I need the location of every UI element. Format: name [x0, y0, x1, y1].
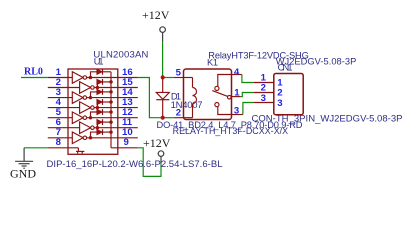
U1 internal GND chassis mark pin8 — [76, 148, 84, 154]
connector CN1 body — [274, 74, 303, 115]
U1 pin 15 — [118, 77, 138, 88]
wire junction to relay pin5 — [163, 77, 174, 79]
U1 pin 8 — [48, 137, 79, 148]
relay K1 pin 2 — [174, 108, 184, 119]
power port +12V bottom — [143, 136, 171, 163]
ground symbol GND — [10, 148, 36, 181]
U1 pin 13 — [118, 97, 138, 108]
wire K1 pin4 to CN1 pin1 — [242, 75, 254, 83]
svg-text:DIP-16_16P-L20.2-W6.6-P2.54-LS: DIP-16_16P-L20.2-W6.6-P2.54-LS7.6-BL — [47, 159, 223, 170]
CN1 pin 3 — [254, 93, 283, 109]
svg-text:+12V: +12V — [143, 136, 171, 150]
svg-text:2: 2 — [176, 108, 181, 119]
U1 internal driver channel 1 — [72, 69, 118, 83]
U1 pin 4 — [48, 97, 80, 108]
wire U1 pin9 to +12V bottom — [138, 148, 161, 177]
svg-text:CN1: CN1 — [278, 63, 293, 73]
U1 pin 5 — [48, 107, 73, 118]
svg-text:CON-TH_3PIN_WJ2EDGV-5.08-3P: CON-TH_3PIN_WJ2EDGV-5.08-3P — [252, 114, 403, 125]
CN1 pin 1 — [254, 73, 284, 89]
svg-text:RL0: RL0 — [24, 67, 43, 78]
svg-text:3: 3 — [261, 93, 266, 104]
relay K1 body — [184, 69, 232, 120]
svg-text:1: 1 — [234, 87, 240, 98]
U1 pin 12 — [118, 107, 138, 118]
U1 pin 2 — [48, 77, 80, 88]
U1 pin 16 — [118, 67, 138, 78]
svg-text:+12V: +12V — [142, 8, 170, 22]
relay K1 pin 1 — [232, 87, 241, 98]
svg-text:3: 3 — [277, 98, 282, 109]
svg-text:3: 3 — [234, 106, 239, 117]
wire U1 pin16 to relay coil / D1 — [138, 78, 163, 118]
U1 pin 9 — [111, 137, 138, 148]
U1 pin 14 — [118, 87, 138, 98]
U1 pin 3 — [48, 87, 73, 98]
wire +12V down to junction — [162, 41, 164, 78]
U1 internal driver channel 2 — [80, 79, 118, 93]
wire net RL0 to U1 pin1 — [21, 77, 48, 79]
junction node D1/K1.2 — [161, 116, 165, 120]
relay K1 contact — [212, 75, 231, 115]
svg-text:8: 8 — [56, 137, 62, 148]
svg-text:K1: K1 — [207, 57, 218, 67]
U1 internal driver channel 6 — [80, 119, 118, 133]
relay K1 pin 4 — [232, 67, 242, 78]
wire K1 pin3 to CN1 pin3 — [243, 103, 254, 115]
CN1 pin 2 — [254, 83, 283, 99]
relay K1 coil — [184, 78, 197, 118]
U1 internal driver channel 3 — [72, 89, 118, 103]
U1 pin 10 — [118, 127, 138, 138]
svg-text:9: 9 — [124, 137, 129, 148]
power port +12V top — [142, 8, 170, 41]
wire GND to U1 pin8 — [24, 147, 48, 149]
U1 internal driver channel 4 — [80, 99, 118, 113]
U1 internal driver channel 7 — [72, 129, 118, 143]
U1 pin 11 — [118, 117, 138, 128]
svg-text:5: 5 — [176, 68, 182, 79]
diode D1 1N4007 — [156, 78, 202, 118]
wire K1 pin1 to CN1 pin2 — [241, 93, 254, 97]
svg-text:GND: GND — [10, 167, 36, 181]
U1 pin 6 — [48, 117, 80, 128]
wire D1 bottom junction to relay pin2 — [163, 117, 174, 119]
U1 pin 1 — [48, 67, 73, 78]
op-amp U1 ULN2003AN body — [68, 50, 149, 155]
svg-text:4: 4 — [234, 67, 240, 78]
U1 internal common diode rail — [110, 72, 112, 148]
junction node +12V/D1/K1.5 — [161, 75, 165, 79]
U1 internal driver channel 5 — [72, 109, 118, 123]
relay K1 pin 3 — [232, 106, 243, 117]
relay K1 pin 5 — [174, 68, 184, 79]
U1 pin 7 — [48, 127, 73, 138]
svg-text:U1: U1 — [94, 56, 104, 66]
